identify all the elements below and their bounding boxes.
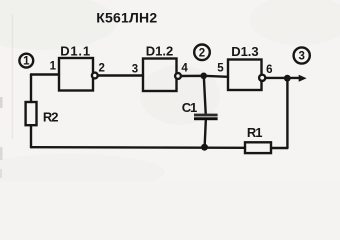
svg-text:C1: C1 [182,100,197,115]
svg-text:3: 3 [298,51,304,63]
svg-text:4: 4 [181,62,188,74]
svg-text:3: 3 [132,64,138,76]
svg-text:К561ЛН2: К561ЛН2 [96,9,157,25]
svg-text:2: 2 [99,62,105,74]
svg-text:R2: R2 [43,110,58,125]
svg-text:D1.3: D1.3 [231,44,258,59]
svg-text:2: 2 [199,47,205,59]
svg-text:5: 5 [217,63,224,75]
svg-text:D1.1: D1.1 [60,43,91,58]
svg-text:D1.2: D1.2 [146,44,173,59]
svg-text:6: 6 [266,64,272,76]
svg-text:1: 1 [23,56,30,68]
svg-text:1: 1 [50,60,57,72]
svg-text:R1: R1 [247,125,262,140]
